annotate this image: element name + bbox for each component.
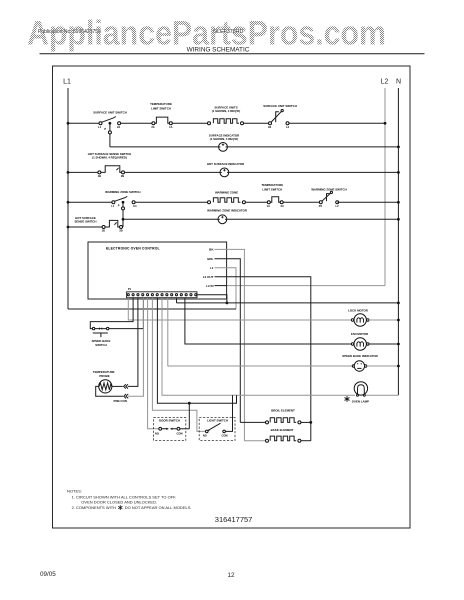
node junction door com: [188, 402, 191, 405]
wire row4 left: [68, 201, 112, 203]
node N junction sbi: [397, 365, 400, 368]
pin 8 of terminal strip: [161, 294, 163, 296]
svg-text:TEMPERATURE: TEMPERATURE: [150, 102, 172, 106]
svg-text:SPEED BAKE INDICATOR: SPEED BAKE INDICATOR: [342, 354, 378, 358]
wire row4 mid c: [283, 201, 320, 203]
node P drop junction row4b: [122, 218, 125, 221]
svg-text:PROBE: PROBE: [99, 374, 109, 378]
svg-text:P: P: [118, 204, 120, 208]
svg-text:WARMING ZONE SWITCH: WARMING ZONE SWITCH: [311, 187, 346, 191]
wire N feed line: [177, 302, 399, 304]
wire row4b right: [227, 218, 399, 220]
wire row4b left: [123, 218, 218, 220]
wire pin9 door com line: [157, 298, 236, 404]
wire fan motor to N: [369, 343, 399, 345]
wire door com link: [180, 428, 189, 430]
svg-text:L2 OUT: L2 OUT: [203, 275, 214, 279]
wire pin8 oven lamp row: [162, 298, 355, 396]
pin 14 of terminal strip: [190, 294, 192, 296]
wire pin13 fan motor row: [185, 298, 352, 344]
wire light switch com riser: [225, 395, 232, 431]
svg-text:(1 SHOWN, 4 REQUIRED): (1 SHOWN, 4 REQUIRED): [92, 155, 127, 159]
wire L2 bus: [384, 88, 386, 286]
pin 1 of terminal strip: [127, 294, 129, 296]
node N junction feed: [397, 302, 400, 305]
svg-text:2A: 2A: [151, 125, 154, 129]
wire strip right stub to N line: [197, 295, 227, 303]
wire L1 bottom run: [68, 308, 236, 310]
svg-text:LIMIT SWITCH: LIMIT SWITCH: [151, 106, 171, 110]
svg-text:TEMPERATURE: TEMPERATURE: [261, 183, 283, 187]
svg-text:2. COMPONENTS WITH: 2. COMPONENTS WITH: [72, 505, 117, 510]
pin 9 of terminal strip: [166, 294, 168, 296]
svg-text:H1: H1: [133, 204, 137, 208]
wire row1 left: [68, 122, 99, 124]
wire pin1 to lock motor row: [128, 298, 351, 320]
wire row5 right: [121, 226, 124, 228]
svg-text:WARMING ZONE INDICATOR: WARMING ZONE INDICATOR: [207, 208, 248, 212]
terminal P warming switch: [122, 207, 125, 210]
op-amp U1 electronic oven control box: [88, 242, 227, 299]
svg-text:P2: P2: [319, 204, 323, 208]
wire pin7 to light switch NO: [152, 298, 205, 432]
svg-text:2B: 2B: [119, 229, 122, 233]
svg-text:N: N: [396, 79, 401, 86]
node P junction row4: [122, 201, 125, 204]
wire BK to bake element: [215, 249, 245, 440]
wire row1 mid a: [120, 122, 152, 124]
svg-text:NO: NO: [155, 432, 159, 436]
svg-text:P: P: [104, 127, 106, 131]
svg-text:COM: COM: [221, 433, 227, 437]
svg-text:WIRING SCHEMATIC: WIRING SCHEMATIC: [187, 47, 250, 54]
svg-text:DO NOT APPEAR ON ALL MODELS.: DO NOT APPEAR ON ALL MODELS.: [125, 505, 192, 510]
wire pin10 speed bake indicator row: [168, 298, 353, 366]
wire row3 right: [229, 171, 399, 173]
svg-text:LIMIT SWITCH: LIMIT SWITCH: [262, 188, 282, 192]
svg-text:DOOR SWITCH: DOOR SWITCH: [159, 419, 180, 423]
wire pin4 to speed bake switch right: [109, 298, 143, 329]
header rule: [40, 53, 425, 55]
node N junction row2: [397, 146, 400, 149]
wire row1 mid c: [243, 122, 268, 124]
svg-text:OVEN DOOR CLOSED AND UNLOCKED.: OVEN DOOR CLOSED AND UNLOCKED.: [81, 499, 157, 504]
wire P drop row4: [122, 202, 124, 207]
svg-text:BAKE ELEMENT: BAKE ELEMENT: [271, 428, 294, 432]
wire probe left lead: [96, 386, 123, 396]
wire pin11 drop: [176, 298, 178, 303]
svg-text:SURFACE UNIT SWITCH: SURFACE UNIT SWITCH: [93, 111, 127, 115]
wire broil right: [301, 421, 311, 423]
wire row1 right: [289, 122, 385, 124]
wire L2 bus to EOC L2 IN: [227, 285, 385, 287]
svg-text:2A: 2A: [281, 204, 284, 208]
wire pin5 to probe minus: [128, 298, 143, 397]
node junction stub-N line: [226, 302, 229, 305]
wire row3 left: [68, 171, 98, 173]
wire N bus: [397, 88, 399, 395]
node N junction row4: [397, 201, 400, 204]
svg-text:L2 IN: L2 IN: [206, 284, 213, 288]
switch speed bake switch: [92, 327, 94, 329]
wire lamp row right: [365, 394, 398, 396]
terminal P surface switch 1: [108, 131, 111, 134]
svg-text:(1 SHOWN, 4 REQ'D): (1 SHOWN, 4 REQ'D): [212, 109, 241, 113]
svg-text:H1: H1: [117, 125, 121, 129]
pin 3 of terminal strip: [137, 294, 139, 296]
pin 4 of terminal strip: [142, 294, 144, 296]
svg-text:HOT SURFACE INDICATOR: HOT SURFACE INDICATOR: [207, 162, 245, 166]
svg-text:WARMING ZONE SWITCH: WARMING ZONE SWITCH: [105, 190, 140, 194]
wire row4 right: [337, 201, 398, 203]
pin 6 of terminal strip: [151, 294, 153, 296]
node N junction fan: [397, 343, 400, 346]
svg-text:SENSE SWITCH: SENSE SWITCH: [74, 220, 96, 224]
svg-text:1A: 1A: [267, 204, 270, 208]
wire row3 mid: [124, 171, 220, 173]
svg-text:NOTES:: NOTES:: [67, 488, 82, 493]
wire probe right lead: [112, 385, 123, 387]
wire row2 right: [227, 146, 398, 148]
wire broil left: [240, 421, 265, 423]
svg-text:ELECTRONIC OVEN CONTROL: ELECTRONIC OVEN CONTROL: [106, 247, 160, 251]
svg-text:2B: 2B: [121, 174, 124, 178]
pin 10 of terminal strip: [171, 294, 173, 296]
node L1 junction row4: [67, 201, 70, 204]
pin 2 of terminal strip: [132, 294, 134, 296]
pin 15 of terminal strip: [195, 294, 197, 296]
wire sbi to N: [367, 365, 399, 367]
wire bake left: [244, 440, 265, 442]
wire row4 mid a: [135, 201, 208, 203]
svg-text:L1: L1: [63, 79, 71, 86]
wire pin6 to door switch NO: [148, 298, 159, 429]
pin 11 of terminal strip: [175, 294, 177, 296]
svg-text:OVEN LAMP: OVEN LAMP: [352, 399, 369, 403]
svg-text:PRB CON: PRB CON: [114, 399, 127, 403]
wire L1 out of EOC: [215, 268, 237, 309]
wire door com riser: [188, 403, 190, 429]
svg-text:FAN MOTOR: FAN MOTOR: [351, 332, 369, 336]
wire row2 left: [110, 146, 219, 148]
wire L1 bus: [67, 88, 69, 309]
wire row5 left: [68, 226, 102, 228]
wire lock motor to N: [369, 319, 399, 321]
svg-text:SWITCH: SWITCH: [95, 343, 106, 347]
switch door switch: [154, 418, 186, 441]
node N junction row3: [397, 171, 400, 174]
node junction broil L2OUT: [309, 421, 312, 424]
svg-text:BROIL ELEMENT: BROIL ELEMENT: [271, 409, 295, 413]
connector probe plug bottom: [124, 394, 128, 398]
svg-text:L1: L1: [210, 266, 214, 270]
svg-text:SURFACE UNIT SWITCH: SURFACE UNIT SWITCH: [263, 104, 297, 108]
svg-text:WARMING ZONE: WARMING ZONE: [215, 191, 238, 195]
svg-text:1A: 1A: [169, 125, 172, 129]
svg-text:P1: P1: [128, 287, 132, 291]
switch light switch: [199, 418, 235, 441]
node L1 junction row3: [67, 171, 70, 174]
svg-text:H2: H2: [268, 125, 272, 129]
wire pin2 to speed bake switch left: [90, 298, 133, 329]
svg-text:COM: COM: [176, 432, 182, 436]
wire pin3 to probe plus: [128, 298, 138, 387]
wire P drop row1: [109, 123, 111, 131]
wire L2 IN stub: [215, 285, 227, 287]
wire BRL to broil element: [215, 259, 241, 423]
label oven lamp: [344, 396, 349, 402]
pin 13 of terminal strip: [185, 294, 187, 296]
node L1 junction row5: [67, 226, 70, 229]
node L1 junction row1: [67, 122, 70, 125]
node L2 junction row1: [384, 122, 387, 125]
wire bake right: [301, 440, 311, 442]
svg-text:1B: 1B: [102, 229, 105, 233]
schematic border frame: [53, 66, 411, 528]
svg-text:LOCK MOTOR: LOCK MOTOR: [348, 308, 369, 312]
svg-text:NO: NO: [203, 433, 207, 437]
pin 12 of terminal strip: [180, 294, 182, 296]
wire row4 mid b: [245, 201, 267, 203]
pin 5 of terminal strip: [147, 294, 149, 296]
node N junction lock: [397, 319, 400, 322]
wire row1 mid b: [172, 122, 208, 124]
svg-text:(1 SHOWN, 4 REQ'D): (1 SHOWN, 4 REQ'D): [210, 137, 239, 141]
connector probe plug top: [124, 384, 128, 388]
node N junction row4b: [397, 218, 400, 221]
pin 7 of terminal strip: [156, 294, 158, 296]
svg-text:1B: 1B: [98, 174, 101, 178]
svg-text:BRL: BRL: [207, 257, 213, 261]
svg-text:L2: L2: [381, 79, 389, 86]
svg-text:12: 12: [228, 572, 236, 579]
svg-text:LIGHT SWITCH: LIGHT SWITCH: [207, 419, 228, 423]
node P junction row1: [109, 122, 112, 125]
svg-text:09/05: 09/05: [40, 571, 56, 578]
wire L2 OUT drop: [215, 277, 311, 441]
svg-text:316417757: 316417757: [215, 515, 253, 524]
lamp oven lamp: [354, 382, 367, 395]
